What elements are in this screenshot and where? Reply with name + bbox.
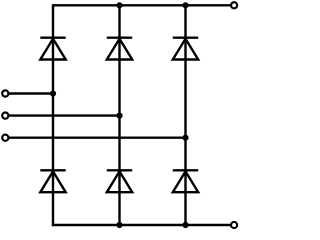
terminal AC phase 2 xyxy=(2,113,8,119)
diode D1 (upper, column 1) xyxy=(40,38,65,60)
wire AC phase 1 xyxy=(9,92,53,94)
diode D2 (lower, column 3) xyxy=(173,170,198,192)
junction phase 1 / leg 1 xyxy=(50,90,56,96)
wire top rail (+) xyxy=(53,4,231,6)
junction phase 2 / leg 2 xyxy=(116,113,122,119)
diode D4 (lower, column 1) xyxy=(40,170,65,192)
diode D5 (upper, column 3) xyxy=(173,38,198,60)
terminal DC - xyxy=(231,222,237,228)
terminal AC phase 3 xyxy=(2,135,8,141)
junction bottom rail / leg 2 xyxy=(116,222,122,228)
terminal DC + xyxy=(231,2,237,8)
terminal AC phase 1 xyxy=(2,90,8,96)
wire bottom rail (-) xyxy=(52,224,231,226)
wire AC phase 3 xyxy=(9,136,186,138)
junction top rail / leg 3 xyxy=(182,2,188,8)
wire vertical leg 2 xyxy=(118,5,120,225)
wire AC phase 2 xyxy=(9,114,120,116)
diode D6 (lower, column 2) xyxy=(107,170,132,192)
junction top rail / leg 2 xyxy=(116,2,122,8)
junction phase 3 / leg 3 xyxy=(182,135,188,141)
wire vertical leg 3 xyxy=(184,5,186,225)
wire vertical leg 1 xyxy=(52,4,54,226)
junction bottom rail / leg 3 xyxy=(182,222,188,228)
diode D3 (upper, column 2) xyxy=(107,38,132,60)
